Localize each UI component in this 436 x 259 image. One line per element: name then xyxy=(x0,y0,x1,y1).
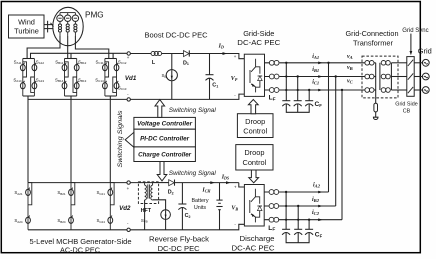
svg-text:iC1: iC1 xyxy=(312,80,319,86)
grid source C xyxy=(422,87,429,94)
droop control box 1 xyxy=(237,114,273,138)
svg-text:Vd2: Vd2 xyxy=(119,205,131,212)
riser iB2 to line B xyxy=(335,77,337,207)
switch SB boost xyxy=(162,54,178,100)
phase line A2 xyxy=(264,191,328,193)
svg-text:CF: CF xyxy=(315,101,323,108)
wire phase c to cell C1 xyxy=(75,36,108,59)
block title AC-DC PEC xyxy=(30,237,132,255)
svg-text:HFT: HFT xyxy=(141,208,152,214)
leg wire phase C down xyxy=(109,96,111,183)
transformer primary coils xyxy=(365,61,376,98)
svg-text:iC2: iC2 xyxy=(312,210,320,216)
boost bottom rail xyxy=(130,94,244,99)
svg-text:SB24: SB24 xyxy=(57,218,66,224)
phase line C2 xyxy=(264,219,342,221)
inductor LF C1 xyxy=(269,88,279,103)
svg-text:VB: VB xyxy=(231,206,238,212)
svg-text:SA21: SA21 xyxy=(14,190,23,196)
current label iB1 xyxy=(312,67,322,78)
phase line B2 xyxy=(264,205,336,207)
current label iA1 xyxy=(312,54,322,64)
H-bridge cell A1 xyxy=(20,59,36,97)
current ID arrow xyxy=(218,43,228,55)
svg-text:Wind: Wind xyxy=(18,17,35,26)
wire secondary to CB xyxy=(391,63,406,90)
svg-text:SB12: SB12 xyxy=(78,59,87,65)
wind turbine block xyxy=(9,15,45,38)
svg-text:iB1: iB1 xyxy=(312,67,319,73)
svg-text:Reverse Fly-back: Reverse Fly-back xyxy=(149,234,209,243)
wire phase b to cell B1 xyxy=(67,36,69,59)
svg-text:SC14: SC14 xyxy=(95,77,104,83)
svg-text:CB: CB xyxy=(403,108,411,114)
wire phase a to cell A1 xyxy=(27,36,60,59)
capacitor C2 xyxy=(178,183,190,230)
svg-text:SA24: SA24 xyxy=(14,218,23,224)
inductor LF B1 xyxy=(269,74,279,79)
svg-text:IDS: IDS xyxy=(221,175,230,181)
leg wire phase A down xyxy=(27,99,29,182)
inverter U2 discharge xyxy=(244,185,264,227)
svg-text:SB14: SB14 xyxy=(55,77,64,83)
inverter U1 grid-side xyxy=(244,54,264,96)
current label iC2 xyxy=(312,210,323,221)
svg-text:SB13: SB13 xyxy=(78,77,87,83)
hollow arrow up boost signal xyxy=(155,100,165,118)
flyback output rail xyxy=(175,182,239,184)
dc-link bus to Vd1 xyxy=(31,53,127,58)
leg wire phase B down xyxy=(70,96,72,183)
svg-text:DC-AC PEC: DC-AC PEC xyxy=(232,243,276,252)
generator PMG xyxy=(53,7,83,45)
label VP with polarity xyxy=(231,54,238,98)
half-bridge cell C2 xyxy=(108,183,114,230)
current label iB2 xyxy=(312,197,323,207)
svg-text:Switching Signals: Switching Signals xyxy=(117,110,124,168)
diode D2 xyxy=(168,180,175,196)
H-bridge cell C1 xyxy=(103,59,119,97)
transformer HFT xyxy=(138,182,168,230)
title Discharge DC-AC PEC xyxy=(232,234,276,252)
svg-text:Control: Control xyxy=(242,158,266,167)
svg-text:Grid-Connection: Grid-Connection xyxy=(346,29,399,38)
hollow arrow droop1 to inverter xyxy=(248,100,258,114)
current IDS arrow xyxy=(221,175,231,184)
controller box Charge Controller xyxy=(134,147,196,162)
grid sync arrow xyxy=(402,28,428,55)
junction dots CF1 xyxy=(285,62,310,92)
junction dots CF2 xyxy=(285,191,310,221)
controller box PI-DC Controller xyxy=(134,129,196,147)
inductor LF A2 xyxy=(269,190,279,195)
capacitor CF2 bank xyxy=(282,192,322,243)
svg-text:Grid Sync: Grid Sync xyxy=(402,28,428,34)
svg-text:Charge Controller: Charge Controller xyxy=(138,153,192,159)
half-bridge cell B2 xyxy=(69,183,75,230)
svg-text:+: + xyxy=(127,55,130,60)
half-bridge cell A2 xyxy=(26,183,32,230)
droop control box 2 xyxy=(236,145,273,170)
svg-text:Switching Signal: Switching Signal xyxy=(169,170,217,177)
svg-text:Control: Control xyxy=(243,127,267,136)
svg-text:Units: Units xyxy=(194,205,207,211)
PMG winding b xyxy=(65,15,71,36)
grid source A xyxy=(422,59,429,66)
inductor LF C2 xyxy=(268,217,278,232)
svg-text:SA12: SA12 xyxy=(36,59,45,65)
node Vd1 terminals xyxy=(127,52,131,101)
dc bus to boost (top) xyxy=(28,96,127,99)
svg-text:SB: SB xyxy=(162,73,167,79)
lower dc rail top xyxy=(28,182,127,184)
PMG winding c xyxy=(72,15,78,36)
junction dots risers xyxy=(327,62,343,92)
label VB with polarity xyxy=(231,185,238,227)
capacitor CF1 bank xyxy=(282,63,322,112)
svg-text:iA1: iA1 xyxy=(312,54,319,60)
svg-text:SC11: SC11 xyxy=(96,59,105,65)
svg-text:Battery: Battery xyxy=(191,198,208,204)
svg-text:SA14: SA14 xyxy=(13,77,22,83)
svg-text:+: + xyxy=(127,186,130,191)
controller box Voltage Controller xyxy=(134,117,196,129)
current ICH arrow xyxy=(201,181,215,193)
PMG winding a xyxy=(57,15,63,36)
svg-text:PMG: PMG xyxy=(85,10,104,19)
flyback top rail xyxy=(130,182,168,184)
svg-text:Grid-Side: Grid-Side xyxy=(243,29,274,38)
svg-text:VP: VP xyxy=(231,76,238,82)
svg-text:Vd1: Vd1 xyxy=(125,75,137,82)
shaft coupling xyxy=(44,21,54,33)
svg-text:SC13: SC13 xyxy=(118,85,127,91)
transformer dashed enclosure xyxy=(362,56,398,98)
battery units xyxy=(191,183,222,230)
svg-text:ID: ID xyxy=(218,43,224,49)
phase line B1 xyxy=(265,76,365,78)
inductor LF A1 xyxy=(269,60,279,65)
notch into discharge inverter top xyxy=(239,183,245,187)
svg-text:vC: vC xyxy=(347,78,354,84)
lower dc rail bottom xyxy=(28,229,127,231)
title Reverse Fly-back DC-DC PEC xyxy=(149,234,209,252)
svg-text:CF: CF xyxy=(315,231,323,238)
svg-text:Discharge: Discharge xyxy=(240,234,275,243)
svg-text:+: + xyxy=(234,54,237,59)
svg-text:SA13: SA13 xyxy=(36,77,45,83)
title Grid-Side DC-AC PEC xyxy=(237,29,281,47)
svg-text:iA2: iA2 xyxy=(313,183,321,189)
svg-text:Grid: Grid xyxy=(418,46,432,55)
svg-text:Droop: Droop xyxy=(244,148,264,157)
riser iA2 to line A xyxy=(328,63,330,192)
phase line C1 xyxy=(265,89,365,91)
breaker box Grid Side CB xyxy=(395,57,417,115)
svg-text:SC24: SC24 xyxy=(96,218,105,224)
switch SFB xyxy=(141,210,171,230)
inductor LF B2 xyxy=(269,204,279,209)
svg-text:SFB: SFB xyxy=(141,218,148,224)
boost top rail xyxy=(130,54,244,59)
riser iC2 to line C xyxy=(341,90,343,220)
svg-text:Transformer: Transformer xyxy=(353,39,394,48)
svg-text:+: + xyxy=(234,185,237,190)
svg-text:Switching Signal: Switching Signal xyxy=(169,107,217,114)
svg-text:Boost DC-DC PEC: Boost DC-DC PEC xyxy=(145,31,209,40)
svg-text:DC-AC PEC: DC-AC PEC xyxy=(237,38,281,47)
svg-text:SC21: SC21 xyxy=(96,190,105,196)
svg-text:Voltage Controller: Voltage Controller xyxy=(137,122,193,128)
inductor L xyxy=(151,51,162,65)
svg-text:DC-DC PEC: DC-DC PEC xyxy=(158,244,201,253)
svg-text:ICH: ICH xyxy=(201,187,211,193)
flyback bottom rail xyxy=(130,224,244,230)
svg-text:iB2: iB2 xyxy=(312,197,320,203)
svg-text:vA: vA xyxy=(347,54,353,60)
svg-text:AC-DC PEC: AC-DC PEC xyxy=(60,246,101,255)
svg-text:SC12: SC12 xyxy=(118,59,127,65)
svg-text:Turbine: Turbine xyxy=(14,27,39,36)
title Grid-Connection Transformer xyxy=(346,29,399,47)
svg-text:PI-DC Controller: PI-DC Controller xyxy=(140,137,190,143)
wires CB to grid xyxy=(414,63,422,90)
hollow arrow down flyback signal xyxy=(157,162,167,181)
H-bridge cell B1 xyxy=(62,59,79,97)
diode D1 xyxy=(183,50,189,66)
phase line A1 xyxy=(265,62,365,64)
current label iC1 xyxy=(312,80,322,92)
capacitor C1 xyxy=(206,54,219,100)
transformer secondary coils xyxy=(380,61,392,93)
svg-text:SB21: SB21 xyxy=(57,190,66,196)
neutral ground element xyxy=(373,98,378,120)
svg-text:Droop: Droop xyxy=(245,117,265,126)
svg-text:SA11: SA11 xyxy=(14,59,22,65)
hollow arrow to MCHB signals xyxy=(125,132,134,147)
node Vd2 terminals xyxy=(127,181,131,232)
hollow arrow droop2 to discharge inverter xyxy=(249,170,259,183)
svg-text:SB11: SB11 xyxy=(55,59,63,65)
grid source B xyxy=(422,73,429,80)
svg-text:vB: vB xyxy=(347,65,353,71)
svg-text:Grid Side: Grid Side xyxy=(395,102,417,108)
current label iA2 xyxy=(313,183,323,194)
